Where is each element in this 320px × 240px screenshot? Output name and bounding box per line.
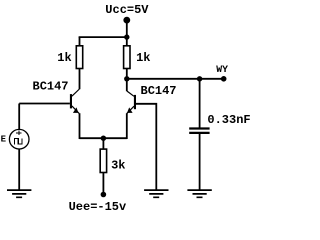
terminal WY bbox=[221, 76, 227, 82]
ground (Q2 base) bbox=[144, 190, 168, 197]
wire to R3 top bbox=[102, 138, 104, 149]
transistor Q2 emitter arrow bbox=[127, 107, 133, 113]
transistor Q1 emitter arrow bbox=[73, 107, 79, 113]
wire Q2 base to ground bbox=[136, 104, 156, 190]
source plus sign bbox=[16, 131, 21, 136]
svg-text:3k: 3k bbox=[111, 159, 125, 173]
wire top rail bbox=[79, 36, 127, 38]
ground (capacitor) bbox=[187, 190, 211, 197]
wire R2 bottom bbox=[126, 69, 128, 79]
transistor Q2 emitter bbox=[127, 106, 134, 113]
junction capacitor branch bbox=[197, 76, 202, 81]
junction top rail bbox=[124, 34, 129, 39]
ground (source) bbox=[7, 190, 31, 197]
terminal Uee bbox=[101, 192, 107, 198]
wire capacitor bottom bbox=[199, 134, 201, 190]
wire Ucc stem bbox=[126, 20, 128, 46]
wire Q2 collector bbox=[126, 79, 128, 91]
svg-text:WY: WY bbox=[216, 64, 228, 75]
junction R2 / WY bbox=[124, 76, 129, 81]
svg-text:Uee=-15v: Uee=-15v bbox=[69, 200, 127, 214]
transistor Q2 base bar bbox=[134, 95, 136, 109]
resistor R3 body bbox=[100, 149, 106, 172]
svg-text:E: E bbox=[1, 134, 7, 144]
junction emitters bbox=[101, 136, 106, 141]
svg-text:1k: 1k bbox=[57, 51, 71, 65]
wire emitter rail bbox=[80, 137, 127, 139]
transistor Q1 emitter bbox=[72, 106, 79, 114]
wire source bottom bbox=[18, 149, 20, 190]
capacitor C1 bottom plate bbox=[189, 132, 209, 134]
capacitor C1 top plate bbox=[189, 127, 209, 129]
svg-text:1k: 1k bbox=[136, 51, 150, 65]
source square wave bbox=[15, 138, 22, 144]
source E circle bbox=[9, 129, 29, 149]
wire WY bbox=[127, 78, 224, 80]
transistor Q1 base bar bbox=[70, 94, 72, 108]
resistor R1 body bbox=[76, 46, 82, 69]
resistor R2 body bbox=[124, 46, 130, 69]
svg-text:Ucc=5V: Ucc=5V bbox=[105, 3, 149, 17]
wire R3 bottom bbox=[102, 173, 104, 195]
wire R1 bottom to Q1 collector bbox=[79, 69, 81, 90]
terminal Ucc bbox=[123, 17, 130, 24]
svg-text:0.33nF: 0.33nF bbox=[207, 113, 250, 127]
svg-text:BC147: BC147 bbox=[33, 80, 69, 94]
wire Q1 base bbox=[19, 103, 70, 105]
wire capacitor top bbox=[199, 79, 201, 128]
wire left supply branch bbox=[79, 37, 81, 46]
wire source top bbox=[18, 104, 20, 130]
svg-text:BC147: BC147 bbox=[141, 84, 177, 98]
